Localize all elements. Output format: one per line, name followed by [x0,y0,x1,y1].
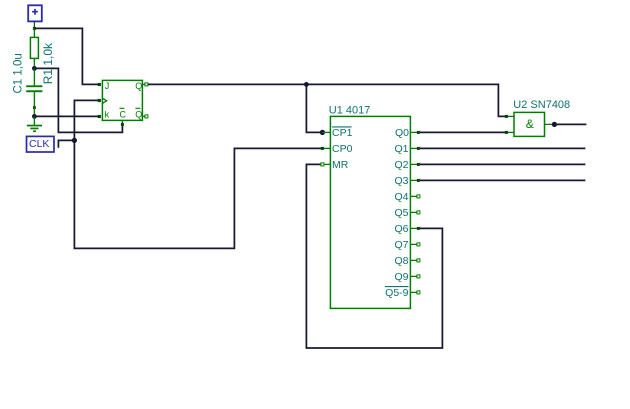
pin clock [98,99,101,102]
svg-text:Q5: Q5 [394,207,408,219]
svg-text:U2 SN7408: U2 SN7408 [513,99,570,111]
AND gate U2 SN7408 [513,99,570,136]
wire Q junction down to CP1 pin [306,84,322,132]
CLK stub wire [58,140,74,147]
svg-text:Q6: Q6 [394,223,408,235]
power terminal V+ [28,5,42,28]
node junction gate output [552,122,557,127]
pin Q7 (open) [394,239,419,251]
wire MR pin to Q6 pin loop [306,164,442,348]
wire R1/C1 node to C-bar pin [34,68,122,132]
wire Q2 out [420,163,586,165]
pin Q3 [394,175,419,187]
node junction C1/ground/K [32,114,37,119]
svg-text:J: J [105,81,110,91]
svg-text:Q7: Q7 [394,239,408,251]
wire V+ to J input [34,28,98,84]
pin Q5-9 (open) [385,287,420,299]
svg-text:Q: Q [135,110,142,120]
svg-text:CP1: CP1 [332,127,353,139]
pin gate output [545,123,555,125]
svg-text:U1 4017: U1 4017 [329,105,371,117]
pin Q9 (open) [394,271,419,283]
wire Q1 out [420,147,586,149]
svg-text:MR: MR [332,159,349,171]
pin J [98,83,101,86]
svg-text:Q3: Q3 [394,175,408,187]
svg-text:Q4: Q4 [394,191,408,203]
pin C-bar [121,120,124,126]
pin Q5 (open) [394,207,419,219]
JK flip-flop U3 [102,80,142,120]
svg-text:k: k [105,110,110,120]
svg-text:CP0: CP0 [332,143,353,155]
pin MR (open) [321,159,349,171]
svg-text:CLK: CLK [29,138,49,150]
node junction R1/C1 [32,66,37,71]
svg-text:Q0: Q0 [395,127,409,139]
wire CLK node to flip-flop clock input [74,100,98,140]
svg-text:Q1: Q1 [394,143,408,155]
pin Q-bar (open) [142,115,148,118]
ground [27,116,42,132]
svg-text:&: & [526,117,534,131]
counter U1 4017 [329,105,411,309]
node junction CP1 pin [320,130,325,135]
svg-text:Q9: Q9 [394,271,408,283]
pin Q4 (open) [394,191,419,203]
svg-text:Q2: Q2 [394,159,408,171]
resistor R1 [30,28,38,68]
capacitor C1 [26,68,42,116]
pin gate B [505,131,514,134]
pin gate A [505,115,514,118]
svg-text:R1 1,0k: R1 1,0k [41,42,55,84]
pin Q1 [394,143,419,155]
wire CLK node to CP0 pin [74,140,322,248]
wire K input [34,115,98,117]
pin Q2 [394,159,419,171]
svg-text:C1 1,0u: C1 1,0u [12,53,24,93]
CLK source box [27,136,55,152]
pin Q (open) [142,83,148,86]
svg-text:C: C [120,110,127,120]
svg-text:Q8: Q8 [394,255,408,267]
pin square (V+ / R1 top node) [33,27,36,30]
wire Q3 out [420,179,586,181]
wire Q0 to gate B [420,131,505,133]
node junction Q/CP1 [304,82,309,87]
node junction CLK [72,138,77,143]
pin K [98,115,101,118]
wire gate output [554,123,586,125]
pin Q0 [395,127,420,139]
pin Q8 (open) [394,255,419,267]
wire Q output to gate A input [148,84,507,116]
pin CP1 label [322,127,352,139]
pin CP0 [321,143,353,155]
svg-text:Q: Q [135,81,142,91]
pin Q6 [394,223,419,235]
svg-text:Q5-9: Q5-9 [385,287,409,299]
